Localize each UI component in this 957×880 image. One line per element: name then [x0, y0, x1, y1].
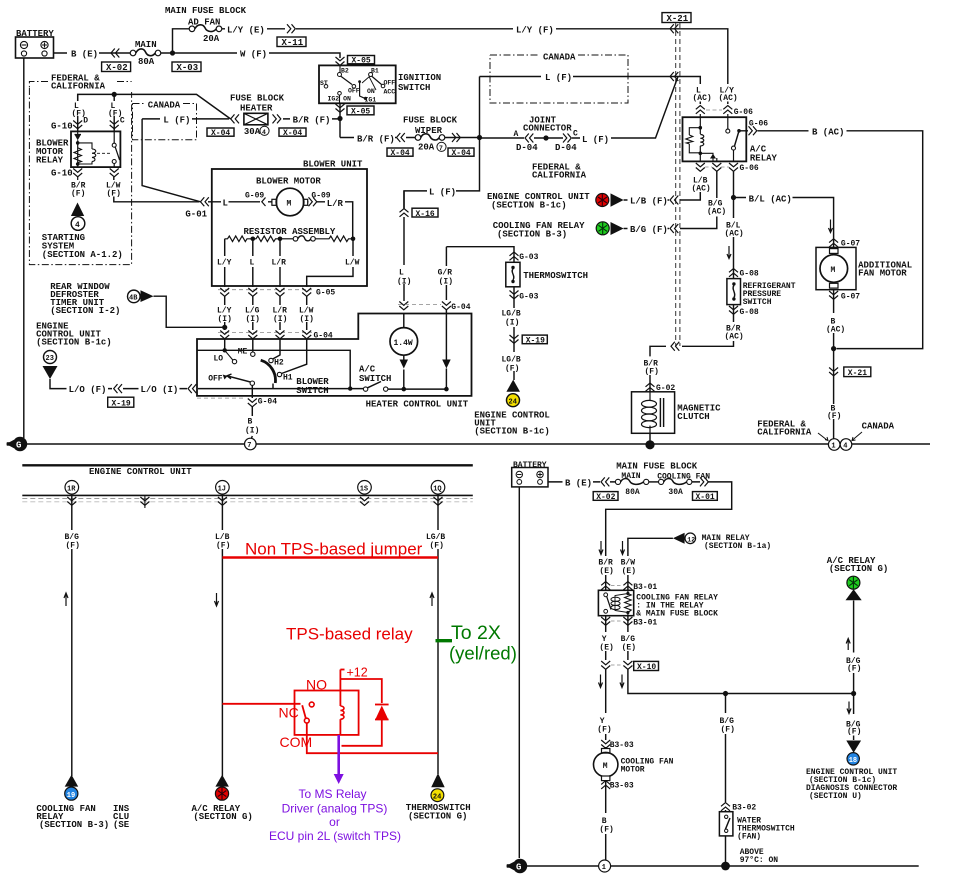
svg-text:CALIFORNIA: CALIFORNIA — [51, 82, 106, 92]
svg-text:X-02: X-02 — [106, 63, 128, 73]
pointer 24 engine control unit (thermoswitch) — [506, 380, 520, 392]
svg-text:OFF: OFF — [208, 374, 223, 383]
svg-text:(FAN): (FAN) — [737, 833, 761, 842]
wire AD FAN branch — [173, 29, 190, 53]
svg-text:B (AC): B (AC) — [812, 128, 844, 138]
purple wire to MS relay driver — [337, 735, 340, 776]
wire L common vertical — [404, 77, 480, 209]
wire ignition switch to B/R junction — [339, 103, 341, 137]
node A/C switch feed — [348, 386, 352, 390]
wire B(I) blower switch to ground — [251, 385, 254, 438]
svg-text:X-05: X-05 — [351, 108, 370, 117]
pin 1S — [358, 481, 372, 495]
node ground clutch — [645, 440, 654, 449]
refrigerant pressure switch — [727, 279, 796, 307]
svg-text:30A: 30A — [244, 127, 261, 137]
connector X-16 — [412, 208, 438, 219]
svg-text:SWITCH: SWITCH — [743, 298, 772, 307]
wire B/G(E) to distribution — [628, 670, 854, 694]
pin 1J — [216, 481, 230, 495]
water thermoswitch — [719, 812, 795, 842]
connector G-08 (top) — [729, 269, 738, 277]
svg-text:X-02: X-02 — [596, 493, 615, 502]
ground ref 7 — [245, 438, 257, 450]
arrow flow (refrigerant) — [727, 246, 731, 259]
fuse HEATER 30A — [244, 113, 269, 137]
svg-text:MOTOR: MOTOR — [621, 766, 645, 775]
svg-text:G: G — [516, 863, 521, 873]
svg-text:RESISTOR ASSEMBLY: RESISTOR ASSEMBLY — [244, 227, 336, 237]
svg-text:18: 18 — [849, 757, 857, 765]
svg-text:4: 4 — [75, 221, 80, 230]
svg-text:(SE: (SE — [113, 820, 130, 830]
red jumper wire (non TPS) — [222, 556, 438, 559]
wire G/R to thermoswitch — [446, 247, 514, 263]
svg-text:4: 4 — [843, 443, 847, 451]
svg-text:L/R: L/R — [272, 259, 287, 268]
battery (top-left) — [16, 29, 55, 58]
svg-text:X-16: X-16 — [416, 210, 435, 219]
arrow flow down (diagnosis) — [847, 702, 851, 714]
wire joint connector line — [480, 77, 679, 139]
ground symbol G (top) — [6, 437, 27, 451]
svg-text:L (F): L (F) — [163, 116, 190, 126]
wire B/R(F) to wiper fuse — [340, 137, 415, 139]
svg-text:X-01: X-01 — [696, 493, 715, 502]
wire L/O(F) to heater control unit — [50, 379, 363, 389]
wire Y(F) to cooling fan motor — [605, 670, 607, 749]
svg-text:G-08: G-08 — [740, 269, 759, 278]
svg-text:L/O (F): L/O (F) — [69, 385, 107, 395]
node ECU diagnosis branch — [851, 691, 856, 696]
svg-text:(I): (I) — [300, 315, 314, 324]
lamp 1.4W — [390, 314, 418, 390]
pointer 19 cooling fan relay — [65, 775, 79, 787]
svg-text:(SECTION B-3): (SECTION B-3) — [39, 820, 109, 830]
ignition switch U — [319, 57, 441, 112]
svg-text:G-06: G-06 — [740, 164, 759, 173]
svg-text:L/R: L/R — [327, 199, 344, 209]
svg-text:M: M — [287, 200, 292, 209]
svg-text:(AC): (AC) — [693, 94, 712, 103]
wire L(I) lamp feed from X-16 — [403, 191, 405, 301]
red relay (TPS) — [222, 670, 438, 754]
wire clutch to ground — [649, 433, 651, 445]
svg-text:G-07: G-07 — [841, 292, 860, 301]
svg-text:C: C — [573, 130, 578, 139]
svg-text:L: L — [399, 269, 404, 278]
svg-text:23: 23 — [46, 355, 54, 363]
svg-text:20A: 20A — [203, 34, 220, 44]
connector X-21 (top) — [662, 13, 691, 24]
wire B/G(E) — [627, 616, 629, 660]
svg-text:G-10: G-10 — [51, 122, 73, 132]
svg-text:(F): (F) — [645, 368, 659, 377]
svg-text:M: M — [831, 266, 836, 275]
svg-text:X-21: X-21 — [667, 14, 689, 24]
svg-text:80A: 80A — [138, 57, 155, 67]
CANADA dash-dot box (right) — [490, 55, 628, 103]
svg-text:(F): (F) — [71, 190, 85, 199]
unused pin chevron — [140, 497, 149, 505]
node B/L(AC) — [731, 195, 736, 200]
svg-text:(SECTION B-1a): (SECTION B-1a) — [704, 542, 771, 551]
svg-text:G-10: G-10 — [51, 169, 73, 179]
svg-text:FAN MOTOR: FAN MOTOR — [858, 269, 907, 279]
svg-text:L/B (F): L/B (F) — [630, 197, 668, 207]
svg-text:ACC: ACC — [384, 89, 396, 96]
svg-text:To MS Relay: To MS Relay — [298, 787, 366, 801]
connector X-03 — [172, 62, 201, 73]
svg-text:(F): (F) — [597, 726, 611, 735]
svg-text:(AC): (AC) — [725, 230, 744, 239]
svg-text:X-03: X-03 — [177, 63, 199, 73]
svg-text:CANADA: CANADA — [543, 53, 576, 63]
arrow flow B/G down — [620, 675, 624, 688]
ground bus (bottom section) — [526, 865, 919, 867]
wire CANADA L(F) heater feed — [142, 118, 229, 120]
svg-text:12: 12 — [687, 536, 695, 543]
wire B/G(AC) pin — [716, 172, 718, 199]
svg-text:(F): (F) — [847, 665, 861, 674]
blower motor M — [245, 177, 331, 216]
wire L/B(F) pin 1J to pointer 25 — [221, 494, 223, 776]
connector B3-01 (top) — [601, 582, 657, 593]
svg-text:THERMOSWITCH: THERMOSWITCH — [523, 271, 588, 281]
fuse WIPER 20A — [415, 134, 446, 153]
svg-text:(AC): (AC) — [707, 208, 726, 217]
svg-text:X-19: X-19 — [526, 337, 545, 346]
wire L/Y(E) / L/Y(F) to top right — [222, 29, 728, 104]
svg-text:IGNITION: IGNITION — [398, 73, 441, 83]
pointer 24 thermoswitch — [431, 773, 445, 787]
wire B/G(F) — [624, 217, 717, 229]
connector X-01 — [693, 492, 718, 503]
svg-text:(E): (E) — [599, 567, 613, 576]
wire L/R motor to resistor assembly — [308, 202, 353, 239]
wire L/W column with jog — [307, 239, 353, 287]
wire B(AC) relay to right edge — [746, 131, 922, 349]
svg-text:80A: 80A — [625, 488, 640, 497]
svg-text:G-06: G-06 — [749, 119, 768, 128]
node water thermoswitch branch — [723, 691, 728, 696]
svg-text:G-01: G-01 — [185, 210, 207, 220]
wire B/G(F) to A/C relay pointer — [853, 601, 855, 694]
arrow flow Y down — [599, 675, 603, 688]
svg-text:(yel/red): (yel/red) — [449, 643, 517, 664]
svg-text:X-04: X-04 — [391, 149, 410, 158]
svg-text:1R: 1R — [67, 485, 76, 493]
svg-text:X-04: X-04 — [452, 149, 471, 158]
svg-text:NO: NO — [306, 677, 327, 693]
svg-text:G-06: G-06 — [734, 108, 753, 117]
svg-text:1Q: 1Q — [433, 485, 441, 493]
svg-text:G-04: G-04 — [451, 303, 470, 312]
svg-text:4: 4 — [262, 129, 266, 136]
svg-text:B: B — [248, 418, 253, 427]
A/C switch — [359, 365, 449, 392]
svg-text:G/R: G/R — [438, 269, 453, 278]
svg-text:L/Y: L/Y — [217, 259, 232, 268]
svg-text:+12: +12 — [347, 666, 368, 680]
svg-text:L/Y (F): L/Y (F) — [516, 26, 554, 36]
connector B3-01 (bottom) — [601, 617, 657, 628]
wire B/L(AC) refrigerant column — [650, 198, 734, 392]
svg-text:(F): (F) — [66, 542, 80, 551]
battery (bottom-right) — [512, 461, 548, 487]
wire LG/B(F) pin 1Q to pointer 24 — [437, 494, 439, 774]
svg-text:B2: B2 — [341, 68, 349, 75]
wire B(E) battery to MAIN fuse — [54, 52, 131, 54]
svg-text:(F): (F) — [599, 826, 613, 835]
svg-text:20A: 20A — [418, 143, 435, 153]
wire LO feed rail — [197, 350, 350, 388]
svg-text:(E): (E) — [622, 567, 636, 576]
svg-text:24: 24 — [433, 793, 441, 801]
wire L/R column — [279, 239, 281, 287]
svg-text:M: M — [603, 762, 608, 771]
svg-text:W (F): W (F) — [240, 50, 267, 60]
wire canada drop to G-01 junction — [142, 119, 200, 202]
svg-text:G-05: G-05 — [316, 289, 335, 298]
wire battery negative to ground bus — [23, 58, 25, 438]
svg-text:SWITCH: SWITCH — [296, 386, 328, 396]
wire LG/B(I) — [513, 287, 515, 380]
svg-text:RELAY: RELAY — [36, 156, 64, 166]
svg-text:H1: H1 — [283, 374, 293, 383]
svg-text:G-03: G-03 — [519, 293, 538, 302]
connector X-21 (bottom) — [844, 367, 871, 378]
svg-text:(F): (F) — [216, 542, 230, 551]
svg-text:BLOWER MOTOR: BLOWER MOTOR — [256, 177, 321, 187]
svg-text:B/R (F): B/R (F) — [357, 135, 395, 145]
svg-text:G: G — [16, 441, 21, 451]
svg-text:(I): (I) — [505, 319, 519, 328]
svg-text:1S: 1S — [360, 485, 368, 493]
svg-text:1J: 1J — [218, 485, 226, 493]
connector G-04 chevrons (blower) — [218, 331, 333, 341]
svg-text:L (F): L (F) — [545, 73, 572, 83]
wire L/W(I) — [306, 297, 308, 331]
red relay diode — [375, 706, 388, 720]
svg-text:B/R (F): B/R (F) — [293, 116, 331, 126]
svg-text:(I): (I) — [245, 427, 259, 436]
svg-text:Driver (analog TPS): Driver (analog TPS) — [282, 802, 388, 816]
arrow flow (fan feed) — [829, 220, 833, 233]
FEDERAL & CALIFORNIA dash-dot box (left) — [29, 82, 131, 265]
svg-text:X-05: X-05 — [352, 57, 371, 66]
wire B/L(AC) pin — [733, 172, 735, 198]
svg-text:L/O (I): L/O (I) — [141, 385, 179, 395]
svg-text:(SECTION B-1c): (SECTION B-1c) — [36, 338, 112, 348]
connector X-04 (wiper right) — [448, 148, 474, 158]
svg-text:B3-03: B3-03 — [610, 782, 634, 791]
node federal feed — [112, 92, 117, 97]
blower motor relay U — [71, 131, 120, 167]
connector G-02 — [646, 383, 655, 391]
svg-text:X-21: X-21 — [848, 369, 867, 378]
svg-text:Non TPS-based jumper: Non TPS-based jumper — [245, 540, 423, 559]
arrow flow up (B/G) — [64, 593, 68, 606]
CANADA dash-dot box (small, heater) — [133, 104, 197, 140]
svg-text:(I): (I) — [246, 315, 260, 324]
pointer 18 diagnosis connector — [846, 741, 861, 753]
svg-text:(SECTION A-1.2): (SECTION A-1.2) — [42, 250, 123, 260]
wire relay switch drop L(F) — [113, 94, 115, 131]
connector G-07 (bottom) — [829, 291, 838, 299]
wire L/G(I) — [252, 297, 254, 331]
svg-text:(SECTION G): (SECTION G) — [193, 812, 252, 822]
svg-text:L: L — [250, 259, 255, 268]
svg-text:(F): (F) — [721, 726, 735, 735]
pointer 12 main relay — [673, 533, 685, 544]
svg-text:X-11: X-11 — [282, 38, 304, 48]
arrow flow up (LG/B) — [430, 593, 434, 606]
svg-text:MAIN FUSE BLOCK: MAIN FUSE BLOCK — [165, 6, 247, 16]
connector X-04 (right) — [279, 128, 306, 138]
svg-text:7: 7 — [439, 145, 443, 152]
svg-text:(I): (I) — [273, 315, 287, 324]
svg-text:H2: H2 — [274, 359, 284, 368]
connector X-10 — [601, 661, 658, 672]
svg-text:97°C: ON: 97°C: ON — [740, 856, 779, 865]
svg-text:ENGINE CONTROL UNIT: ENGINE CONTROL UNIT — [89, 467, 192, 477]
wire B/G(F) pin 1R to pointer 19 — [71, 494, 73, 776]
svg-text:B/L (AC): B/L (AC) — [749, 194, 792, 204]
svg-text:BATTERY: BATTERY — [513, 461, 547, 470]
connector X-02 (bottom) — [593, 492, 618, 503]
pointer 25 A/C relay — [215, 775, 229, 787]
svg-text:D-04: D-04 — [516, 143, 538, 153]
arrow flow down (L/B) — [215, 593, 219, 606]
svg-text:HEATER CONTROL UNIT: HEATER CONTROL UNIT — [366, 400, 469, 410]
wire W(F) fuse to ignition switch — [161, 53, 340, 58]
svg-text:HEATER: HEATER — [240, 104, 273, 114]
pointer 4 starting system — [71, 203, 84, 217]
svg-text:G-03: G-03 — [519, 253, 538, 262]
fuse AD FAN 20A — [188, 18, 222, 45]
svg-text:(SECTION B-1c): (SECTION B-1c) — [491, 201, 567, 211]
wire L(F) canada line — [480, 77, 701, 105]
svg-text:To 2X: To 2X — [451, 622, 501, 644]
svg-text:X-10: X-10 — [637, 663, 656, 672]
cooling fan relay (bottom) U — [598, 590, 633, 615]
connector G-05 chevrons — [218, 288, 335, 298]
wire B/R(E) — [605, 540, 607, 590]
wire defroster tap to L/Y node — [154, 296, 225, 327]
svg-text:A/C: A/C — [359, 365, 376, 375]
svg-text:(SECTION G): (SECTION G) — [829, 564, 888, 574]
wire B/W(E) — [627, 540, 629, 590]
ground ref 1 (bottom) — [599, 860, 611, 872]
thermoswitch — [506, 252, 588, 302]
node rear defroster tap — [222, 325, 227, 330]
svg-text:COM: COM — [280, 734, 313, 750]
svg-text:4B: 4B — [129, 295, 138, 303]
green tap mark on LG/B wire — [436, 639, 453, 642]
svg-text:(F): (F) — [827, 412, 841, 421]
svg-text:CANADA: CANADA — [148, 101, 181, 111]
connector B3-03 (bottom) — [601, 781, 610, 789]
connector X-05 (bottom) — [347, 106, 374, 117]
wire L/W(F) relay to blower motor — [114, 177, 272, 202]
svg-text:(AC): (AC) — [725, 333, 744, 342]
connector X-04 (left) — [207, 128, 234, 138]
svg-text:NC: NC — [279, 705, 299, 721]
svg-text:L (F): L (F) — [429, 188, 456, 198]
svg-text:FUSE BLOCK: FUSE BLOCK — [230, 94, 285, 104]
svg-text:(SECTION G): (SECTION G) — [408, 812, 467, 822]
svg-text:CANADA: CANADA — [862, 422, 895, 432]
svg-text:(E): (E) — [599, 644, 613, 653]
fuse MAIN 80A — [130, 40, 161, 67]
wire B(F) motor to ground — [605, 781, 607, 860]
connector X-04 (wiper left) — [387, 148, 413, 158]
wire B/R(F) to starting system — [77, 177, 79, 180]
arrow flow B/W down — [621, 541, 625, 555]
svg-text:OFF: OFF — [384, 80, 396, 87]
connector X-19 (left) — [108, 397, 134, 409]
ground ref 1 (federal) — [828, 439, 840, 451]
connector X-19 (thermoswitch) — [510, 335, 519, 343]
svg-text:(F): (F) — [107, 190, 121, 199]
svg-text:& MAIN FUSE BLOCK: & MAIN FUSE BLOCK — [636, 610, 718, 619]
svg-text:ME: ME — [238, 348, 248, 357]
svg-text:B3-01: B3-01 — [633, 583, 657, 592]
additional fan motor — [816, 247, 912, 289]
svg-text:B3-03: B3-03 — [610, 741, 634, 750]
connector X-11 — [277, 37, 306, 48]
wire B/L(AC) to additional fan — [734, 198, 834, 248]
wire B(AC) fan to node — [833, 290, 835, 349]
svg-text:MAIN: MAIN — [135, 40, 157, 50]
connector G-08 (bottom) — [729, 306, 738, 314]
wire B/G(F) water thermoswitch branch — [725, 694, 727, 867]
svg-text:(F): (F) — [847, 728, 861, 737]
svg-text:FUSE BLOCK: FUSE BLOCK — [403, 116, 458, 126]
svg-text:(AC): (AC) — [719, 94, 738, 103]
svg-text:L: L — [223, 199, 228, 209]
svg-text:(I): (I) — [397, 278, 411, 287]
svg-text:CALIFORNIA: CALIFORNIA — [757, 428, 812, 438]
svg-text:BLOWER UNIT: BLOWER UNIT — [303, 160, 363, 170]
node B(AC)/B(F) — [831, 346, 836, 351]
wire B/R(F) heater fuse to ignition junction — [283, 118, 340, 120]
svg-text:MAIN: MAIN — [621, 472, 640, 481]
svg-text:MAIN FUSE BLOCK: MAIN FUSE BLOCK — [616, 461, 698, 471]
svg-text:D: D — [83, 117, 88, 126]
wire arc tap to L/O rail — [272, 384, 274, 389]
svg-text:X-19: X-19 — [112, 400, 131, 409]
junction node at X-03 — [170, 50, 175, 55]
wire relay coil drop L(F) — [77, 94, 79, 131]
svg-text:L/W: L/W — [345, 259, 360, 268]
pin 1Q — [431, 481, 445, 495]
svg-text:1: 1 — [602, 864, 606, 872]
svg-text:B (E): B (E) — [565, 479, 592, 489]
connector G-07 (top) — [829, 239, 838, 247]
engine control unit box (bottom-left) — [22, 464, 473, 466]
pointer 27 A/C relay (bottom) — [846, 589, 862, 600]
arrow flow up (B/G to relay) — [846, 639, 850, 651]
wire B/W main relay feed — [628, 538, 673, 540]
connector X-02 — [102, 62, 131, 73]
ground symbol G (bottom) — [506, 859, 527, 873]
arrow flow B/R down — [599, 541, 603, 555]
svg-text:(SECTION B-3): (SECTION B-3) — [497, 229, 567, 239]
resistor assembly — [225, 227, 356, 242]
svg-text:or: or — [329, 815, 340, 829]
